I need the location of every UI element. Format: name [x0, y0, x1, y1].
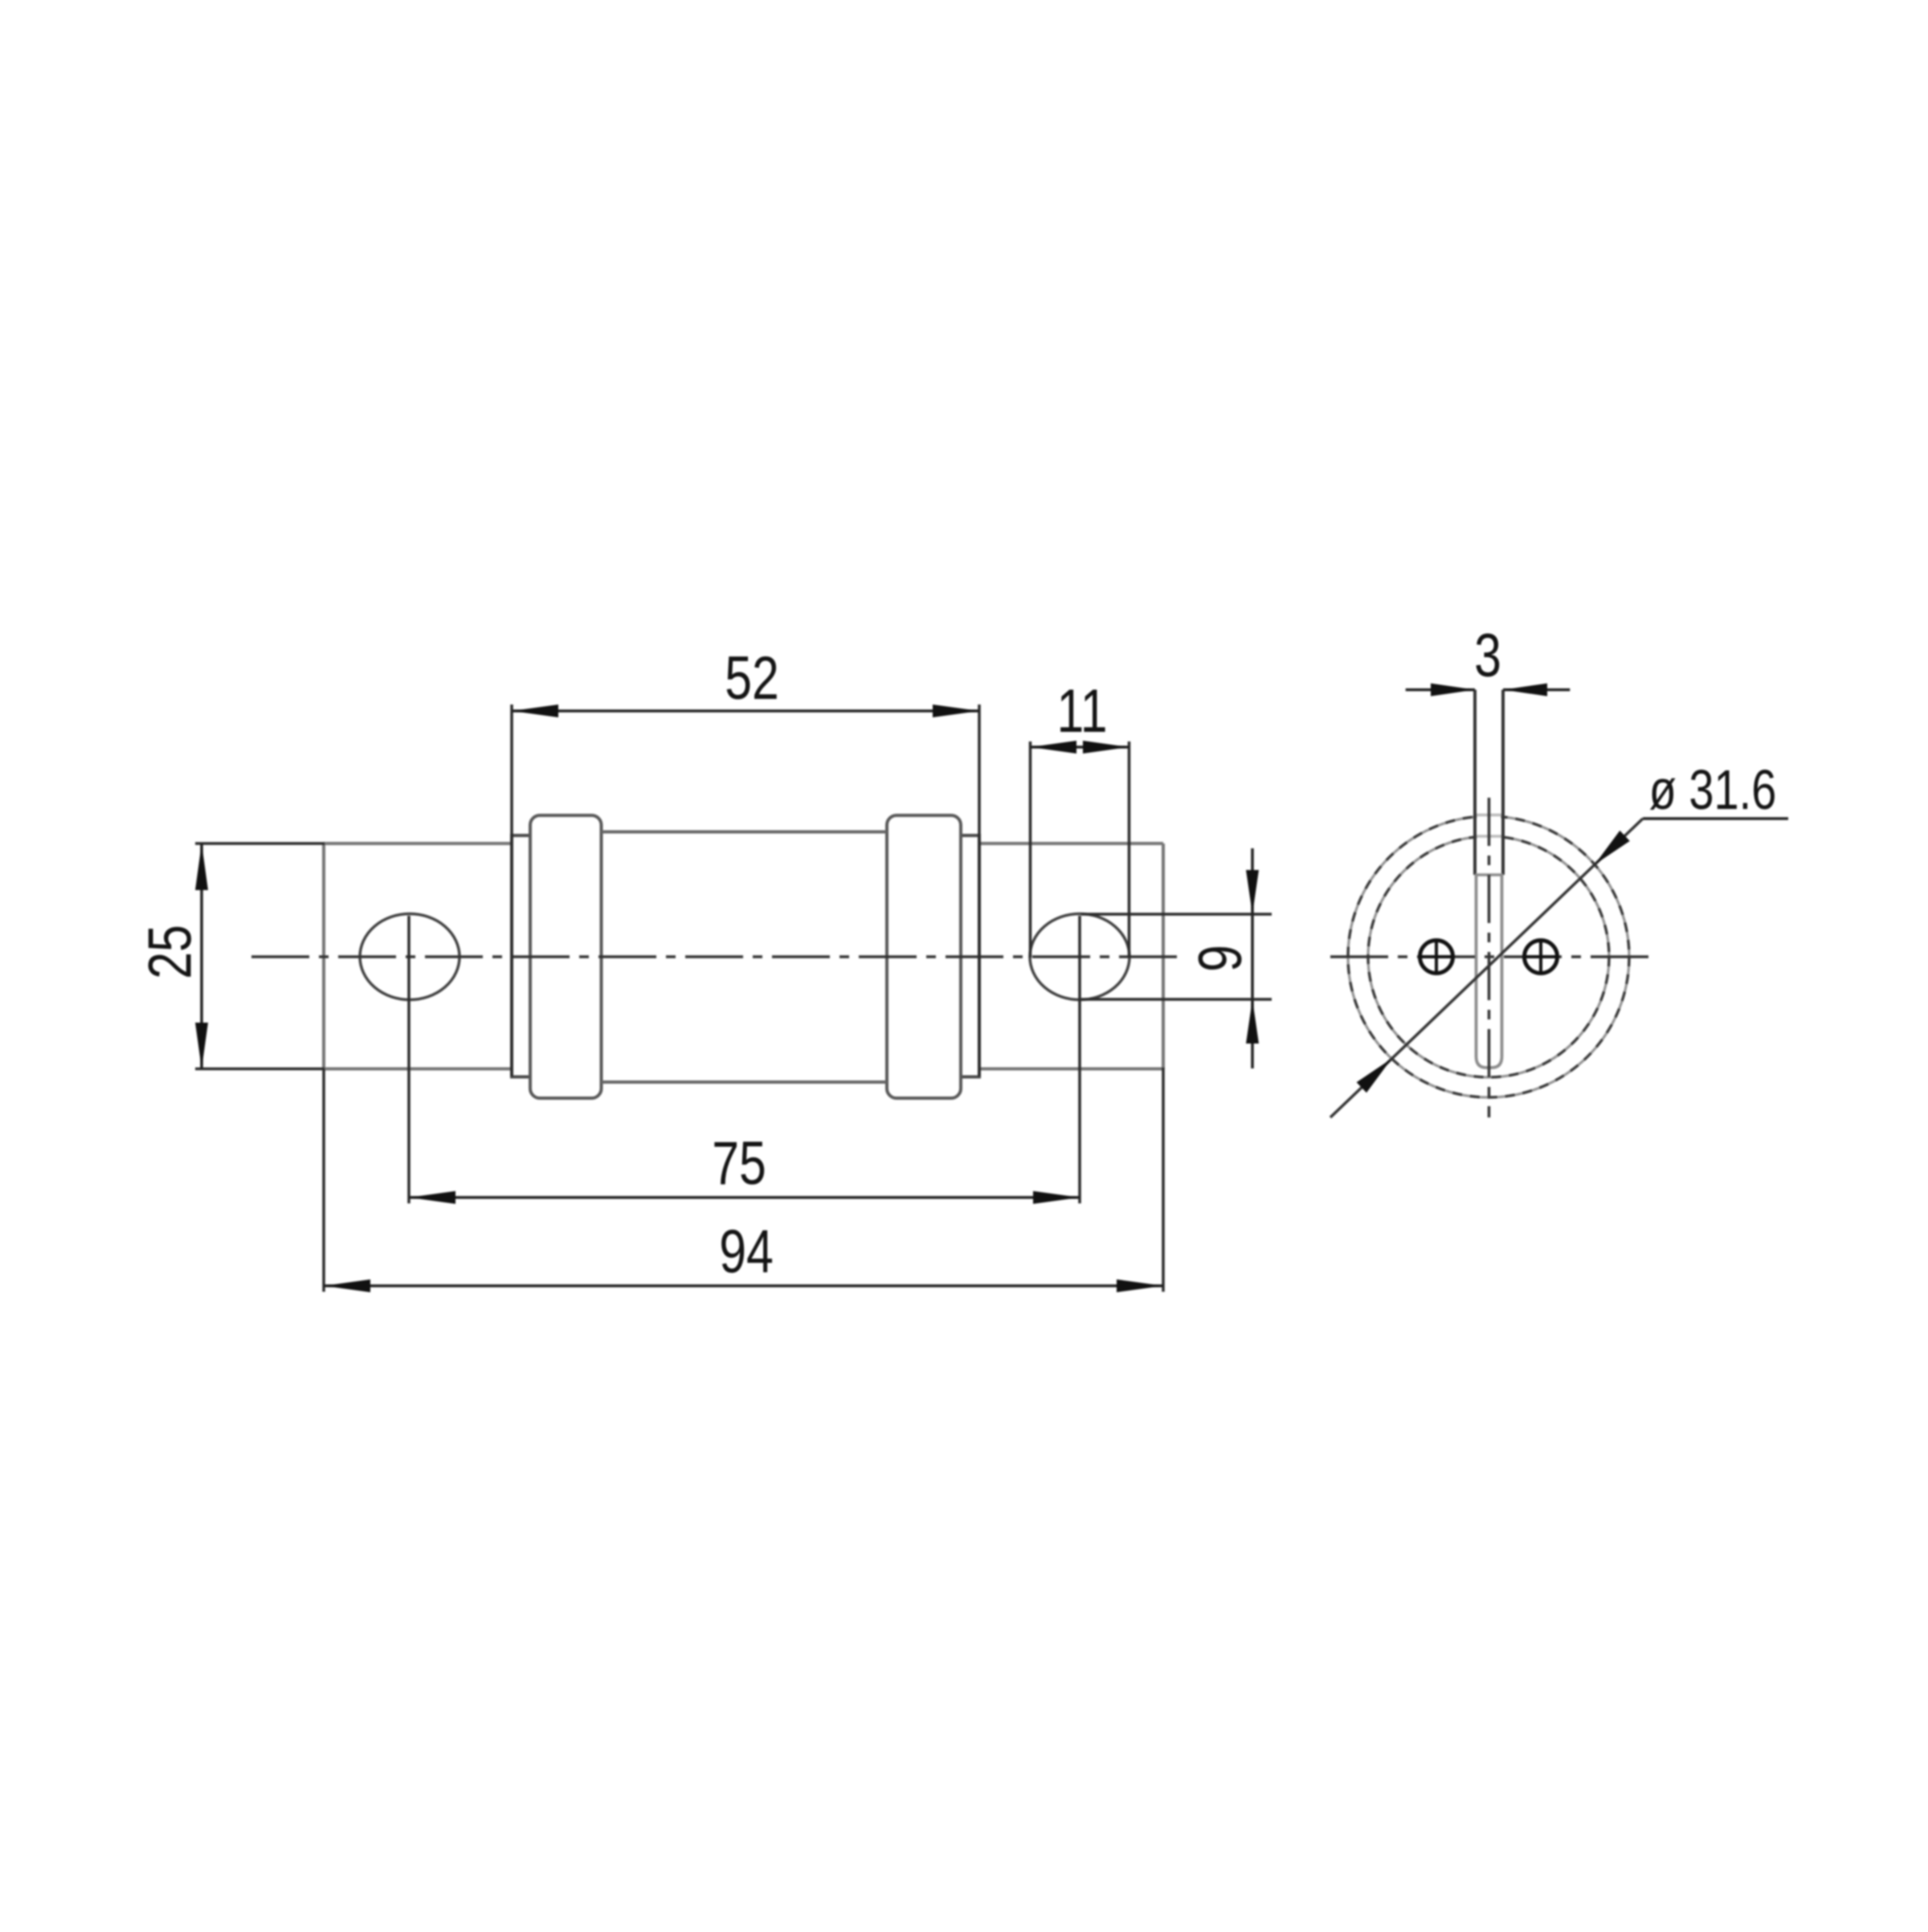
right washer disc: [961, 835, 979, 1077]
end view arrowheads: [1357, 684, 1630, 1093]
dim 94 line: [324, 1285, 1163, 1288]
left screw: [1419, 939, 1454, 974]
outer cap circle (solid under-stroke): [1348, 816, 1629, 1097]
svg-text:ø 31.6: ø 31.6: [1649, 759, 1777, 821]
dim 11 line: [1031, 745, 1129, 749]
left blade slot hole: [360, 914, 460, 1000]
arrowheads: [195, 705, 1259, 1293]
end view horizontal centerline: [1330, 955, 1648, 958]
blade covers circle dashes (white mask): [1477, 805, 1501, 873]
svg-text:3: 3: [1474, 622, 1501, 690]
left ferrule end cap: [530, 815, 602, 1098]
diameter leader arrows: [1595, 831, 1630, 864]
dim 52 extension lines: [512, 705, 979, 1076]
svg-text:52: 52: [725, 644, 779, 713]
dim 75 arrows: [409, 1191, 455, 1204]
svg-text:75: 75: [712, 1129, 766, 1198]
dim 25 line: [200, 843, 203, 1069]
dim 94 extension lines: [324, 1068, 1163, 1292]
end view vertical centerline: [1488, 798, 1491, 1117]
side view centerline: [251, 955, 1186, 958]
end view blade (hidden part): [1477, 875, 1502, 1068]
svg-text:9: 9: [1187, 945, 1255, 972]
dim 9 extension lines: [1081, 914, 1272, 999]
dim 9 line: [1251, 848, 1254, 1068]
ceramic body outline: [602, 832, 888, 1083]
dim 3 arrows: [1431, 684, 1475, 696]
dim 25 extension lines: [195, 843, 325, 1069]
dim 94 arrows: [324, 1280, 370, 1293]
right screw: [1523, 939, 1558, 974]
left washer disc: [512, 835, 530, 1077]
diameter leader horizontal: [1643, 817, 1788, 820]
diameter leader diagonal: [1330, 819, 1643, 1117]
inner cap circle (dashed): [1368, 836, 1609, 1077]
dim 11 arrows: [1031, 741, 1077, 754]
inner cap circle (solid under-stroke): [1368, 836, 1609, 1077]
dim 52 line: [512, 709, 979, 713]
dim 52 arrows: [512, 705, 558, 717]
right blade terminal: [979, 843, 1163, 1069]
dim 9 arrows: [1246, 870, 1259, 914]
end view blade (visible part): [1475, 690, 1503, 875]
svg-text:11: 11: [1056, 677, 1107, 745]
outer cap circle (dashed): [1348, 816, 1629, 1097]
left blade terminal: [324, 843, 512, 1069]
svg-text:25: 25: [136, 925, 204, 979]
svg-text:94: 94: [719, 1218, 774, 1286]
right blade slot hole: [1030, 914, 1129, 1000]
dim 3 line right segment: [1503, 688, 1570, 692]
dim 11 extension lines: [1031, 741, 1129, 958]
dim 75 line: [409, 1196, 1080, 1199]
dim 75 extension lines: [409, 916, 1080, 1203]
right ferrule end cap: [887, 815, 961, 1098]
dim 25 arrows: [195, 843, 208, 890]
dim 3 line left segment: [1406, 688, 1475, 692]
